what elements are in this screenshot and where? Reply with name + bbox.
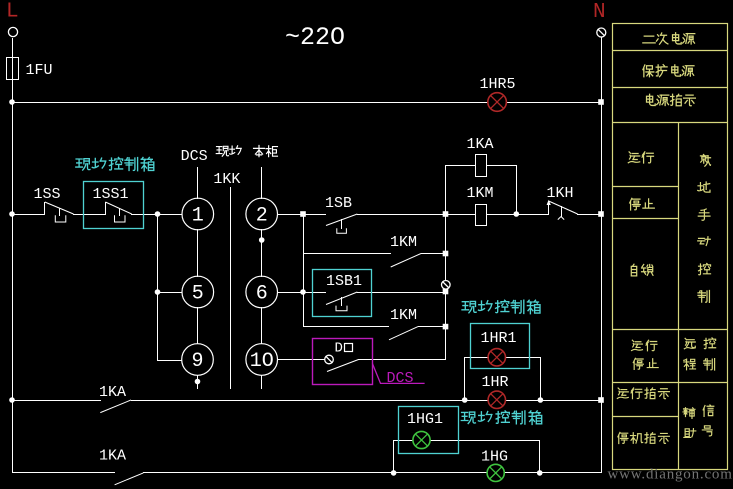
svg-text:1: 1 (192, 205, 204, 228)
svg-text:1HR1: 1HR1 (481, 330, 517, 347)
svg-text:9: 9 (191, 350, 203, 373)
svg-text:www.diangon.com: www.diangon.com (608, 467, 733, 483)
svg-text:1KM: 1KM (467, 185, 494, 202)
svg-text:1O: 1O (250, 350, 274, 373)
svg-text:~22O: ~22O (285, 23, 345, 52)
svg-text:1SS: 1SS (34, 186, 61, 203)
svg-text:1KM: 1KM (390, 307, 417, 324)
svg-text:1SS1: 1SS1 (93, 186, 129, 203)
svg-text:DCS: DCS (387, 370, 414, 387)
svg-text:1KK: 1KK (213, 171, 240, 188)
svg-text:1HG: 1HG (481, 449, 508, 466)
svg-text:2: 2 (256, 205, 268, 228)
svg-text:N: N (593, 1, 606, 24)
svg-text:5: 5 (192, 283, 204, 306)
svg-text:1FU: 1FU (26, 62, 53, 79)
svg-text:1HG1: 1HG1 (407, 411, 443, 428)
svg-text:1KA: 1KA (467, 136, 494, 153)
svg-text:6: 6 (256, 283, 268, 306)
svg-text:1SB1: 1SB1 (326, 273, 362, 290)
svg-text:D: D (335, 341, 343, 357)
svg-text:DCS: DCS (181, 148, 208, 165)
svg-text:1KA: 1KA (99, 448, 126, 465)
svg-text:L: L (6, 1, 19, 24)
svg-text:1KH: 1KH (547, 185, 574, 202)
svg-text:1HR5: 1HR5 (480, 76, 516, 93)
svg-text:1KM: 1KM (390, 234, 417, 251)
svg-text:1SB: 1SB (325, 195, 352, 212)
svg-text:1KA: 1KA (99, 384, 126, 401)
svg-text:1HR: 1HR (482, 374, 509, 391)
